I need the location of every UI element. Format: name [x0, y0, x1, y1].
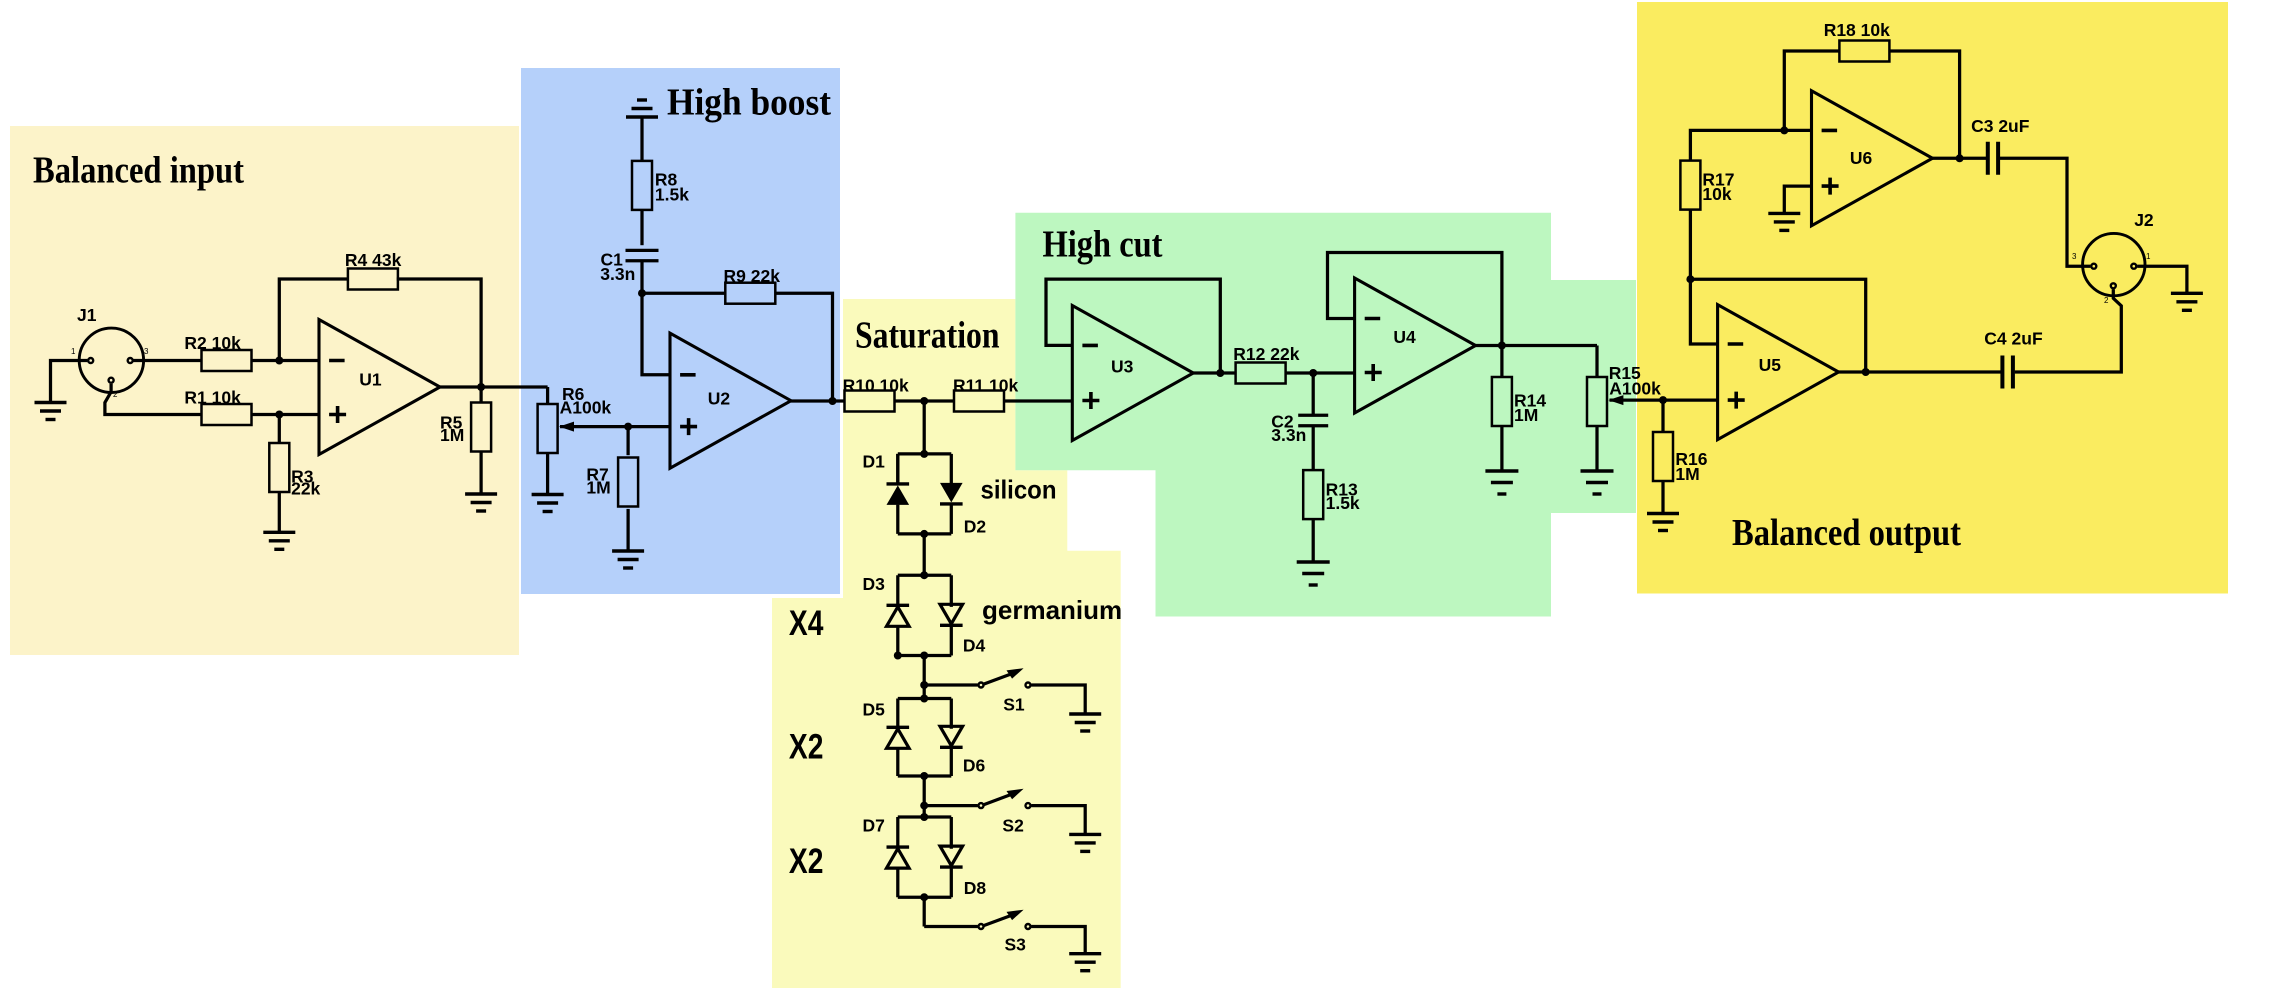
svg-text:R10 10k: R10 10k — [843, 376, 909, 396]
svg-text:silicon: silicon — [981, 475, 1057, 505]
svg-text:A100k: A100k — [1609, 379, 1661, 399]
svg-text:1M: 1M — [1514, 405, 1538, 425]
svg-text:U1: U1 — [359, 369, 382, 389]
svg-text:1M: 1M — [1675, 464, 1699, 484]
svg-text:R4 43k: R4 43k — [345, 250, 402, 270]
svg-text:U4: U4 — [1393, 327, 1416, 347]
svg-text:R1 10k: R1 10k — [184, 388, 241, 408]
svg-text:1: 1 — [2146, 252, 2151, 261]
svg-text:2: 2 — [113, 390, 118, 399]
svg-text:X2: X2 — [789, 728, 824, 767]
svg-text:1.5k: 1.5k — [655, 184, 689, 204]
svg-text:U6: U6 — [1850, 148, 1873, 168]
svg-text:10k: 10k — [1702, 184, 1731, 204]
svg-text:Balanced output: Balanced output — [1732, 512, 1961, 554]
svg-text:22k: 22k — [291, 479, 320, 499]
svg-text:3: 3 — [2072, 252, 2077, 261]
svg-text:R18 10k: R18 10k — [1824, 20, 1890, 40]
svg-text:1M: 1M — [586, 478, 610, 498]
svg-text:S3: S3 — [1005, 935, 1027, 955]
svg-text:D1: D1 — [863, 451, 886, 471]
svg-text:D2: D2 — [964, 517, 987, 537]
svg-text:1: 1 — [71, 347, 76, 356]
svg-text:High cut: High cut — [1043, 224, 1163, 266]
svg-text:1M: 1M — [440, 425, 464, 445]
svg-text:germanium: germanium — [982, 595, 1122, 625]
svg-text:X2: X2 — [789, 842, 824, 881]
svg-text:J1: J1 — [77, 305, 97, 325]
svg-text:U3: U3 — [1111, 357, 1134, 377]
svg-text:D8: D8 — [964, 878, 987, 898]
svg-text:D5: D5 — [863, 700, 886, 720]
svg-text:J2: J2 — [2134, 210, 2154, 230]
svg-text:R9 22k: R9 22k — [724, 266, 781, 286]
svg-text:3.3n: 3.3n — [600, 264, 635, 284]
svg-text:U2: U2 — [708, 388, 731, 408]
svg-text:R11 10k: R11 10k — [953, 376, 1018, 396]
svg-text:U5: U5 — [1759, 355, 1782, 375]
svg-text:C3 2uF: C3 2uF — [1971, 116, 2030, 136]
svg-text:1.5k: 1.5k — [1326, 493, 1360, 513]
svg-text:R12 22k: R12 22k — [1233, 344, 1299, 364]
svg-text:X4: X4 — [789, 604, 824, 643]
svg-text:Balanced input: Balanced input — [33, 150, 244, 192]
svg-text:D7: D7 — [863, 816, 885, 836]
svg-text:R2 10k: R2 10k — [184, 333, 241, 353]
svg-text:C4 2uF: C4 2uF — [1984, 329, 2043, 349]
svg-text:D4: D4 — [963, 636, 986, 656]
svg-text:D6: D6 — [963, 756, 986, 776]
svg-text:High boost: High boost — [667, 82, 831, 124]
svg-text:S2: S2 — [1002, 816, 1024, 836]
svg-text:2: 2 — [2104, 296, 2109, 305]
svg-text:A100k: A100k — [560, 398, 612, 418]
svg-text:3: 3 — [144, 347, 149, 356]
svg-text:S1: S1 — [1003, 695, 1025, 715]
svg-text:D3: D3 — [863, 574, 886, 594]
svg-text:Saturation: Saturation — [855, 314, 1000, 356]
svg-text:3.3n: 3.3n — [1271, 425, 1306, 445]
